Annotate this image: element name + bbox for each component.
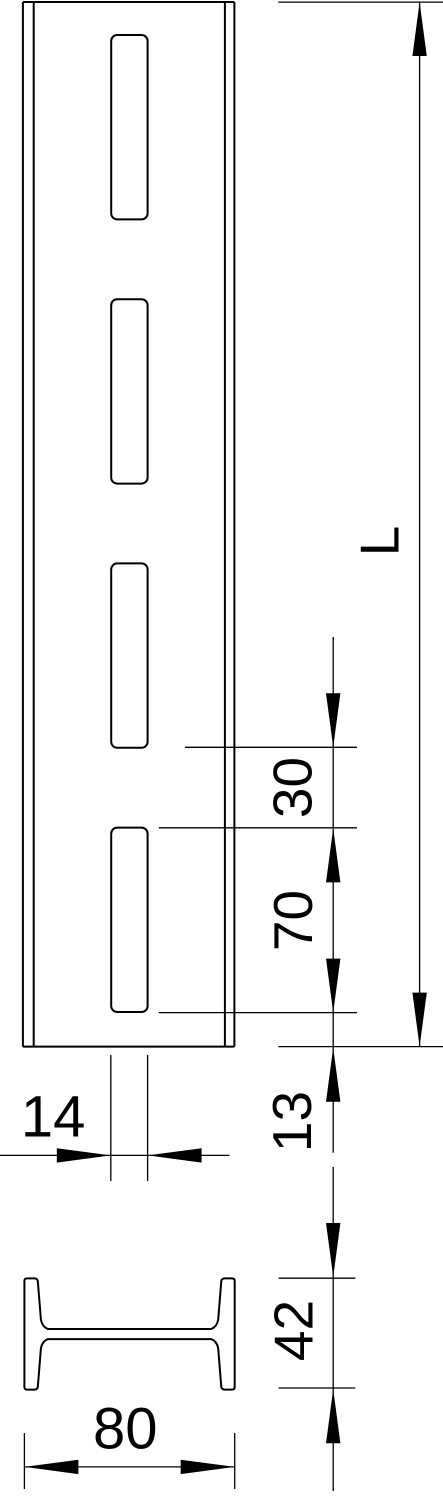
arrowhead 42 top <box>326 1223 340 1277</box>
rail flange inner edge right <box>224 2 226 1047</box>
extension line slot width left <box>110 1055 112 1181</box>
arrowhead 42 bottom <box>326 1389 340 1443</box>
slot 4 <box>111 828 147 1012</box>
svg-text:L: L <box>349 526 411 557</box>
extension line section width right <box>234 1433 236 1489</box>
rail side view outer outline <box>23 2 235 1047</box>
arrowhead 14 right <box>148 1148 202 1162</box>
svg-text:14: 14 <box>21 1084 86 1149</box>
arrowhead 70 bottom / 13 top <box>326 959 340 1013</box>
rail flange inner edge left <box>33 2 35 1047</box>
arrowhead 70 top / 30 bottom <box>326 828 340 882</box>
arrowhead L bottom <box>412 993 426 1047</box>
svg-text:13: 13 <box>261 1091 323 1152</box>
arrowhead 80 right <box>181 1460 235 1474</box>
extension line section bottom (for 42) <box>279 1387 356 1389</box>
svg-text:80: 80 <box>93 1396 158 1461</box>
chain dimension line upper segment <box>332 637 334 1153</box>
svg-text:70: 70 <box>262 890 324 951</box>
extension line slot4 bottom <box>159 1012 357 1014</box>
slot 3 <box>111 563 147 747</box>
svg-text:30: 30 <box>262 757 324 818</box>
extension line rail bottom (for L and 13) <box>278 1046 443 1048</box>
cross section I-profile outline <box>24 1278 234 1389</box>
extension line section width left <box>23 1433 25 1489</box>
dimension line 14 <box>0 1154 230 1156</box>
slot 2 <box>111 299 147 483</box>
arrowhead L top <box>412 2 426 56</box>
extension line slot4 top <box>159 827 357 829</box>
svg-text:42: 42 <box>263 1300 325 1361</box>
extension line slot3 bottom <box>185 746 357 748</box>
arrowhead 80 left <box>24 1460 78 1474</box>
arrowhead 13 bottom <box>326 1048 340 1102</box>
dimension line 80 <box>24 1466 234 1468</box>
extension line section top (for 42) <box>279 1277 356 1279</box>
dimension line L <box>419 2 421 1047</box>
arrowhead 30 top <box>326 693 340 747</box>
extension line slot width right <box>147 1055 149 1181</box>
arrowhead 14 left <box>57 1148 111 1162</box>
extension line top (for L) <box>278 1 443 3</box>
chain dimension line lower segment <box>332 1167 334 1491</box>
slot 1 <box>111 35 147 219</box>
